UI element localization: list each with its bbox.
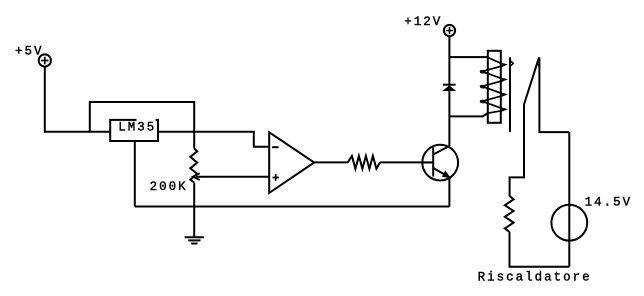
wire to relay coil top [449, 56, 487, 58]
wire wiper to op-amp non-inverting input [196, 176, 269, 178]
resistor R2 base resistor [348, 156, 380, 169]
wire pot bottom to ground [193, 183, 195, 238]
op-amp U1 [269, 132, 314, 193]
wire op-amp output [314, 161, 348, 163]
power terminal +5V [39, 54, 51, 66]
svg-text:+12V: +12V [404, 15, 442, 29]
wire collector up to +12V [448, 36, 450, 146]
wire LM35 output to op-amp inverting input [158, 132, 269, 147]
wire switch common to heater [510, 105, 524, 196]
wire ground rail [135, 206, 450, 208]
relay coil K1 [449, 51, 505, 123]
op-amp plus sign [273, 174, 279, 180]
wire switch contact to right rail [539, 57, 569, 132]
wire +5V down and right to LM35 [45, 67, 110, 132]
potentiometer R1 200K body [190, 149, 197, 183]
svg-text:14.5V: 14.5V [585, 195, 633, 209]
wire LM35 ground pin [134, 141, 136, 207]
ground symbol [185, 237, 204, 243]
wire heater bottom to source [510, 232, 570, 267]
svg-text:Riscaldatore: Riscaldatore [478, 270, 592, 284]
svg-text:+5V: +5V [15, 45, 44, 59]
svg-text:200K: 200K [150, 180, 188, 194]
power terminal +12V [444, 25, 455, 36]
wire top bracket from +5V rail to pot top [90, 102, 194, 149]
wire emitter to ground rail [448, 177, 450, 206]
relay armature line [510, 57, 513, 132]
wire resistor to base [380, 161, 433, 163]
op-amp minus sign [272, 146, 278, 148]
relay switch blade [524, 57, 539, 104]
svg-text:LM35: LM35 [118, 121, 156, 135]
heater resistor [505, 196, 514, 232]
wire right vertical through source [568, 132, 570, 267]
white patch over box top border [137, 115, 156, 121]
wire to relay coil bottom [449, 113, 487, 116]
transistor Q1 [422, 145, 458, 181]
diode D1 flyback [442, 85, 456, 91]
sensor LM35 box [110, 120, 158, 141]
source 14.5V [551, 205, 587, 241]
potentiometer wiper arrow [193, 173, 200, 180]
